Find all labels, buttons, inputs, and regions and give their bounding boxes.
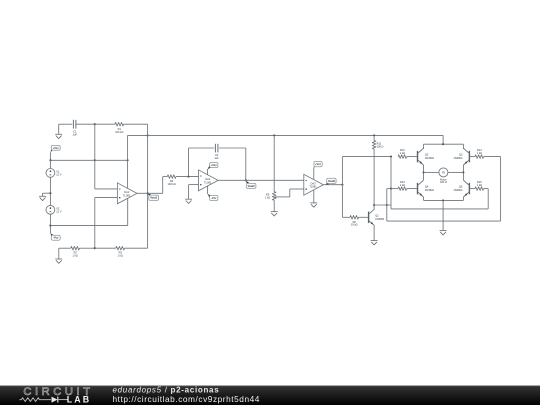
transistor Q5 2N3904 (bridge bottom-right) [453, 180, 469, 197]
wire: R13 to Q4 base [407, 188, 418, 190]
node flag -Vcc (V2 negative) [51, 233, 61, 240]
CircuitLab logo: resistor zigzag and diode [20, 397, 69, 403]
wire: vertical x=391 (base feed) down to lower return [390, 157, 392, 209]
svg-text:Vout3: Vout3 [328, 179, 335, 183]
wire: R6 to Q1 base [359, 216, 369, 218]
wire: bottom rail left segment with ground [55, 248, 71, 263]
junction dot collector row tap [386, 204, 388, 206]
node flag Vout3 [326, 178, 336, 184]
wire: rail down to potentiometer R5 [273, 135, 275, 191]
op-amp OA3 TL081 [304, 174, 324, 195]
resistor R14 1 kOhm (Q3 base) [475, 148, 484, 158]
junction dot rail to R11 branch [373, 134, 375, 136]
wire: Q4 emitter to bridge bottom [423, 197, 425, 200]
transistor Q3 2N3904 (bridge top-right) [453, 144, 469, 165]
wire: Q5 base to R15 [469, 188, 475, 190]
ground (H-bridge) [440, 231, 447, 235]
wire: R3 to feedback vertical [125, 247, 148, 249]
wire: R1 to feedback vertical [124, 123, 148, 125]
wire: -Vcc rail y=225.6 to OA1 V- pin [50, 225, 127, 227]
svg-text:100 kΩ: 100 kΩ [115, 130, 123, 134]
wire: Q1 collector to R11 node [373, 205, 375, 209]
junction dot upper base row / vertical [390, 156, 392, 158]
svg-text:+Vcc: +Vcc [211, 163, 218, 167]
transistor Q1 2N3904 [369, 209, 385, 226]
voltage source V2 12 V [46, 205, 62, 214]
resistor R2 1 kOhm [71, 246, 80, 257]
footer url line [113, 394, 260, 404]
motor M1 100 Ohm [439, 168, 448, 184]
svg-text:TL081: TL081 [204, 180, 212, 184]
resistor R1 100 kOhm [115, 122, 124, 133]
wire: OA2 output to OA3 inverting input [218, 179, 304, 181]
wire: vertical node A to OA1 inverting input [95, 124, 118, 189]
node A junction dot (C1/R1/inverting input) [94, 123, 96, 125]
wire: Q1 collector row to bridge-left vertical [374, 204, 391, 206]
wire: +Vcc rail y=160.3 from V1 to OA1 V+ pin [49, 159, 128, 161]
wire: OA1 output [137, 177, 163, 194]
svg-text:12 V: 12 V [56, 173, 62, 177]
wire: R15 right lead to return [484, 188, 489, 190]
potentiometer R5 1 kOhm [265, 192, 290, 201]
wire: R5 bottom to ground [273, 200, 275, 211]
resistor R13 1 kOhm (Q4 base) [398, 180, 407, 190]
svg-text:1uF: 1uF [73, 132, 78, 136]
junction dot feedback at OA1 output [147, 192, 149, 194]
wire: motor row right [448, 171, 464, 173]
svg-text:-Vcc: -Vcc [211, 196, 217, 200]
wire: Q1 emitter to ground [373, 226, 375, 241]
resistor R6 10 kOhm (Q1 base) [350, 216, 359, 227]
wire: R4 to OA2 inverting input [176, 176, 199, 178]
wire: OA3 output [323, 184, 342, 186]
resistor R15 1 kOhm (Q5 base) [475, 180, 484, 190]
svg-text:Vout2: Vout2 [248, 184, 255, 188]
wire: OA3 output up to upper base row and down to R6 [342, 157, 391, 218]
wire: return path y=208.9 to R15 (bottom-right base) [391, 189, 488, 209]
svg-text:2N3904: 2N3904 [453, 188, 463, 192]
svg-text:TL081: TL081 [309, 185, 317, 189]
svg-text:1 kΩ: 1 kΩ [73, 254, 78, 258]
ground (top-left, C1 left plate) [55, 124, 62, 138]
ground (between V1 and V2) [39, 193, 50, 200]
wire: +Vcc distribution rail y=135.4 [128, 135, 444, 160]
svg-text:m: m [442, 171, 445, 175]
svg-text:-Vcc: -Vcc [53, 236, 59, 240]
junction dot OA3 output node [341, 184, 343, 186]
wire: Q3 base to R14 [469, 156, 475, 158]
wire: Vout1 to R4 [163, 176, 168, 178]
CircuitLab logo: CIRCUIT text [23, 386, 93, 398]
node flag +Vcc at OA2 V+ pin [208, 163, 218, 175]
op-amp OA1 TL081 [117, 160, 137, 225]
svg-text:LAB: LAB [67, 395, 91, 405]
junction dot feedback/supply rail crossing [147, 134, 149, 136]
node flag -Vcc at OA2 V- pin [208, 186, 218, 201]
resistor R12 1 kOhm (Q2 base) [398, 148, 407, 158]
ground (OA2 non-inverting input) [185, 199, 192, 203]
svg-text:10 kΩ: 10 kΩ [351, 223, 358, 227]
wire: H-bridge top rail [424, 143, 464, 145]
junction dot Q1 collector node [373, 204, 375, 206]
svg-text:1 kΩ: 1 kΩ [400, 151, 405, 155]
ground (below R5) [271, 212, 278, 216]
wire: deep return y=221.1 to R14 (top-right base) [387, 157, 501, 222]
svg-text:2N3904: 2N3904 [375, 217, 385, 221]
wire: feedback vertical x=147.6 (R1/R3 to OA1 output) [147, 124, 149, 248]
node flag Vout1 [148, 194, 159, 201]
op-amp OA2 TL081 [199, 170, 219, 191]
svg-text:100 Ω: 100 Ω [440, 180, 447, 184]
wire: vertical x=386.8 from lower-left base row to deep return [386, 189, 388, 222]
resistor R11 100 Ohm (Q1 collector load) [372, 135, 383, 149]
wire: H-bridge bottom rail [424, 199, 464, 201]
wire: top rail from ground to C1 [59, 123, 72, 125]
node flag Vout2 [246, 181, 256, 189]
wire: Q5 emitter to bridge bottom [462, 197, 464, 200]
wire: R14 right lead to deep return [484, 156, 501, 158]
wire: R5 wiper to OA3 non-inverting input [290, 189, 304, 197]
wire: bridge right mid vertical [462, 165, 464, 180]
svg-text:1 kΩ: 1 kΩ [400, 183, 405, 187]
junction dot node A / +Vcc rail [94, 159, 96, 161]
wire: lower-left base row [387, 188, 398, 190]
junction dot lower-left base row [390, 188, 392, 190]
transistor Q2 2N3904 (bridge top-left) [418, 144, 435, 165]
junction dot ground tap between V1 and V2 [49, 192, 51, 194]
svg-text:1uF: 1uF [214, 156, 219, 160]
voltage source V1 12 V [46, 160, 62, 177]
svg-text:TL081: TL081 [123, 193, 131, 197]
wire: V2 minus down to -Vcc wire [49, 214, 51, 233]
wire: R12 to Q2 base [407, 156, 418, 158]
svg-text:1 kΩ: 1 kΩ [477, 183, 482, 187]
junction dot rail to R5 branch [273, 134, 275, 136]
resistor R4 100 kOhm [167, 175, 176, 186]
resistor R3 1 kOhm [116, 246, 125, 257]
node flag +Vcc at OA3 V+ pin [314, 162, 322, 180]
junction dot OA2 inverting node [187, 176, 189, 178]
wire: node A to R1 [95, 123, 115, 125]
svg-text:1 kΩ: 1 kΩ [118, 254, 123, 258]
wire: node B to R3 [95, 247, 116, 249]
capacitor C1 1uF [73, 120, 78, 137]
wire: bridge left mid vertical [422, 165, 424, 180]
wire: feedback loop around OA2 [189, 148, 246, 180]
wire: OA1 non-inverting input from R2/R3 node [95, 198, 118, 249]
wire: OA2 non-inverting input to ground [189, 185, 199, 200]
wire: V1 minus to V2 plus [49, 177, 51, 205]
svg-text:+Vcc: +Vcc [315, 162, 322, 166]
node B junction dot (R2/R3/non-inverting) [94, 247, 96, 249]
footer credit line [113, 385, 220, 394]
svg-text:http://circuitlab.com/cv9zprht: http://circuitlab.com/cv9zprht5dn44 [113, 394, 260, 404]
wire: +Vcc rail to H-bridge top [442, 135, 444, 144]
svg-text:2N3904: 2N3904 [425, 156, 435, 160]
node flag +Vcc (V1 positive) [50, 145, 60, 160]
wire: R2 to node B [80, 247, 95, 249]
svg-text:2N3904: 2N3904 [453, 156, 463, 160]
footer bar [0, 386, 540, 405]
ground (Q1 emitter) [371, 241, 378, 245]
wire: OA3 V- pin to ground [313, 190, 315, 203]
svg-text:Vout1: Vout1 [150, 196, 157, 200]
svg-text:2N3904: 2N3904 [425, 188, 435, 192]
svg-text:1 kΩ: 1 kΩ [265, 195, 270, 199]
junction dot OA2 output / feedback [245, 179, 247, 181]
svg-text:Q1: Q1 [375, 213, 379, 217]
ground (OA3 V- pin) [310, 203, 317, 207]
svg-text:100 kΩ: 100 kΩ [168, 182, 176, 186]
svg-text:100 Ω: 100 Ω [377, 145, 384, 149]
wire: bridge bottom to ground [442, 200, 444, 230]
svg-text:12 V: 12 V [56, 209, 62, 213]
CircuitLab logo: LAB text [67, 395, 91, 405]
svg-text:1 kΩ: 1 kΩ [477, 151, 482, 155]
wire: R11 to Q1 collector node [373, 149, 375, 205]
wire: motor row left [424, 171, 439, 173]
svg-text:+Vcc: +Vcc [53, 146, 60, 150]
wire: C1 to node A junction [76, 123, 95, 125]
transistor Q4 2N3904 (bridge bottom-left) [418, 180, 435, 197]
svg-text:eduardops5 / p2-acionas: eduardops5 / p2-acionas [113, 385, 220, 394]
capacitor C2 1uF (integrator feedback) [214, 144, 219, 160]
